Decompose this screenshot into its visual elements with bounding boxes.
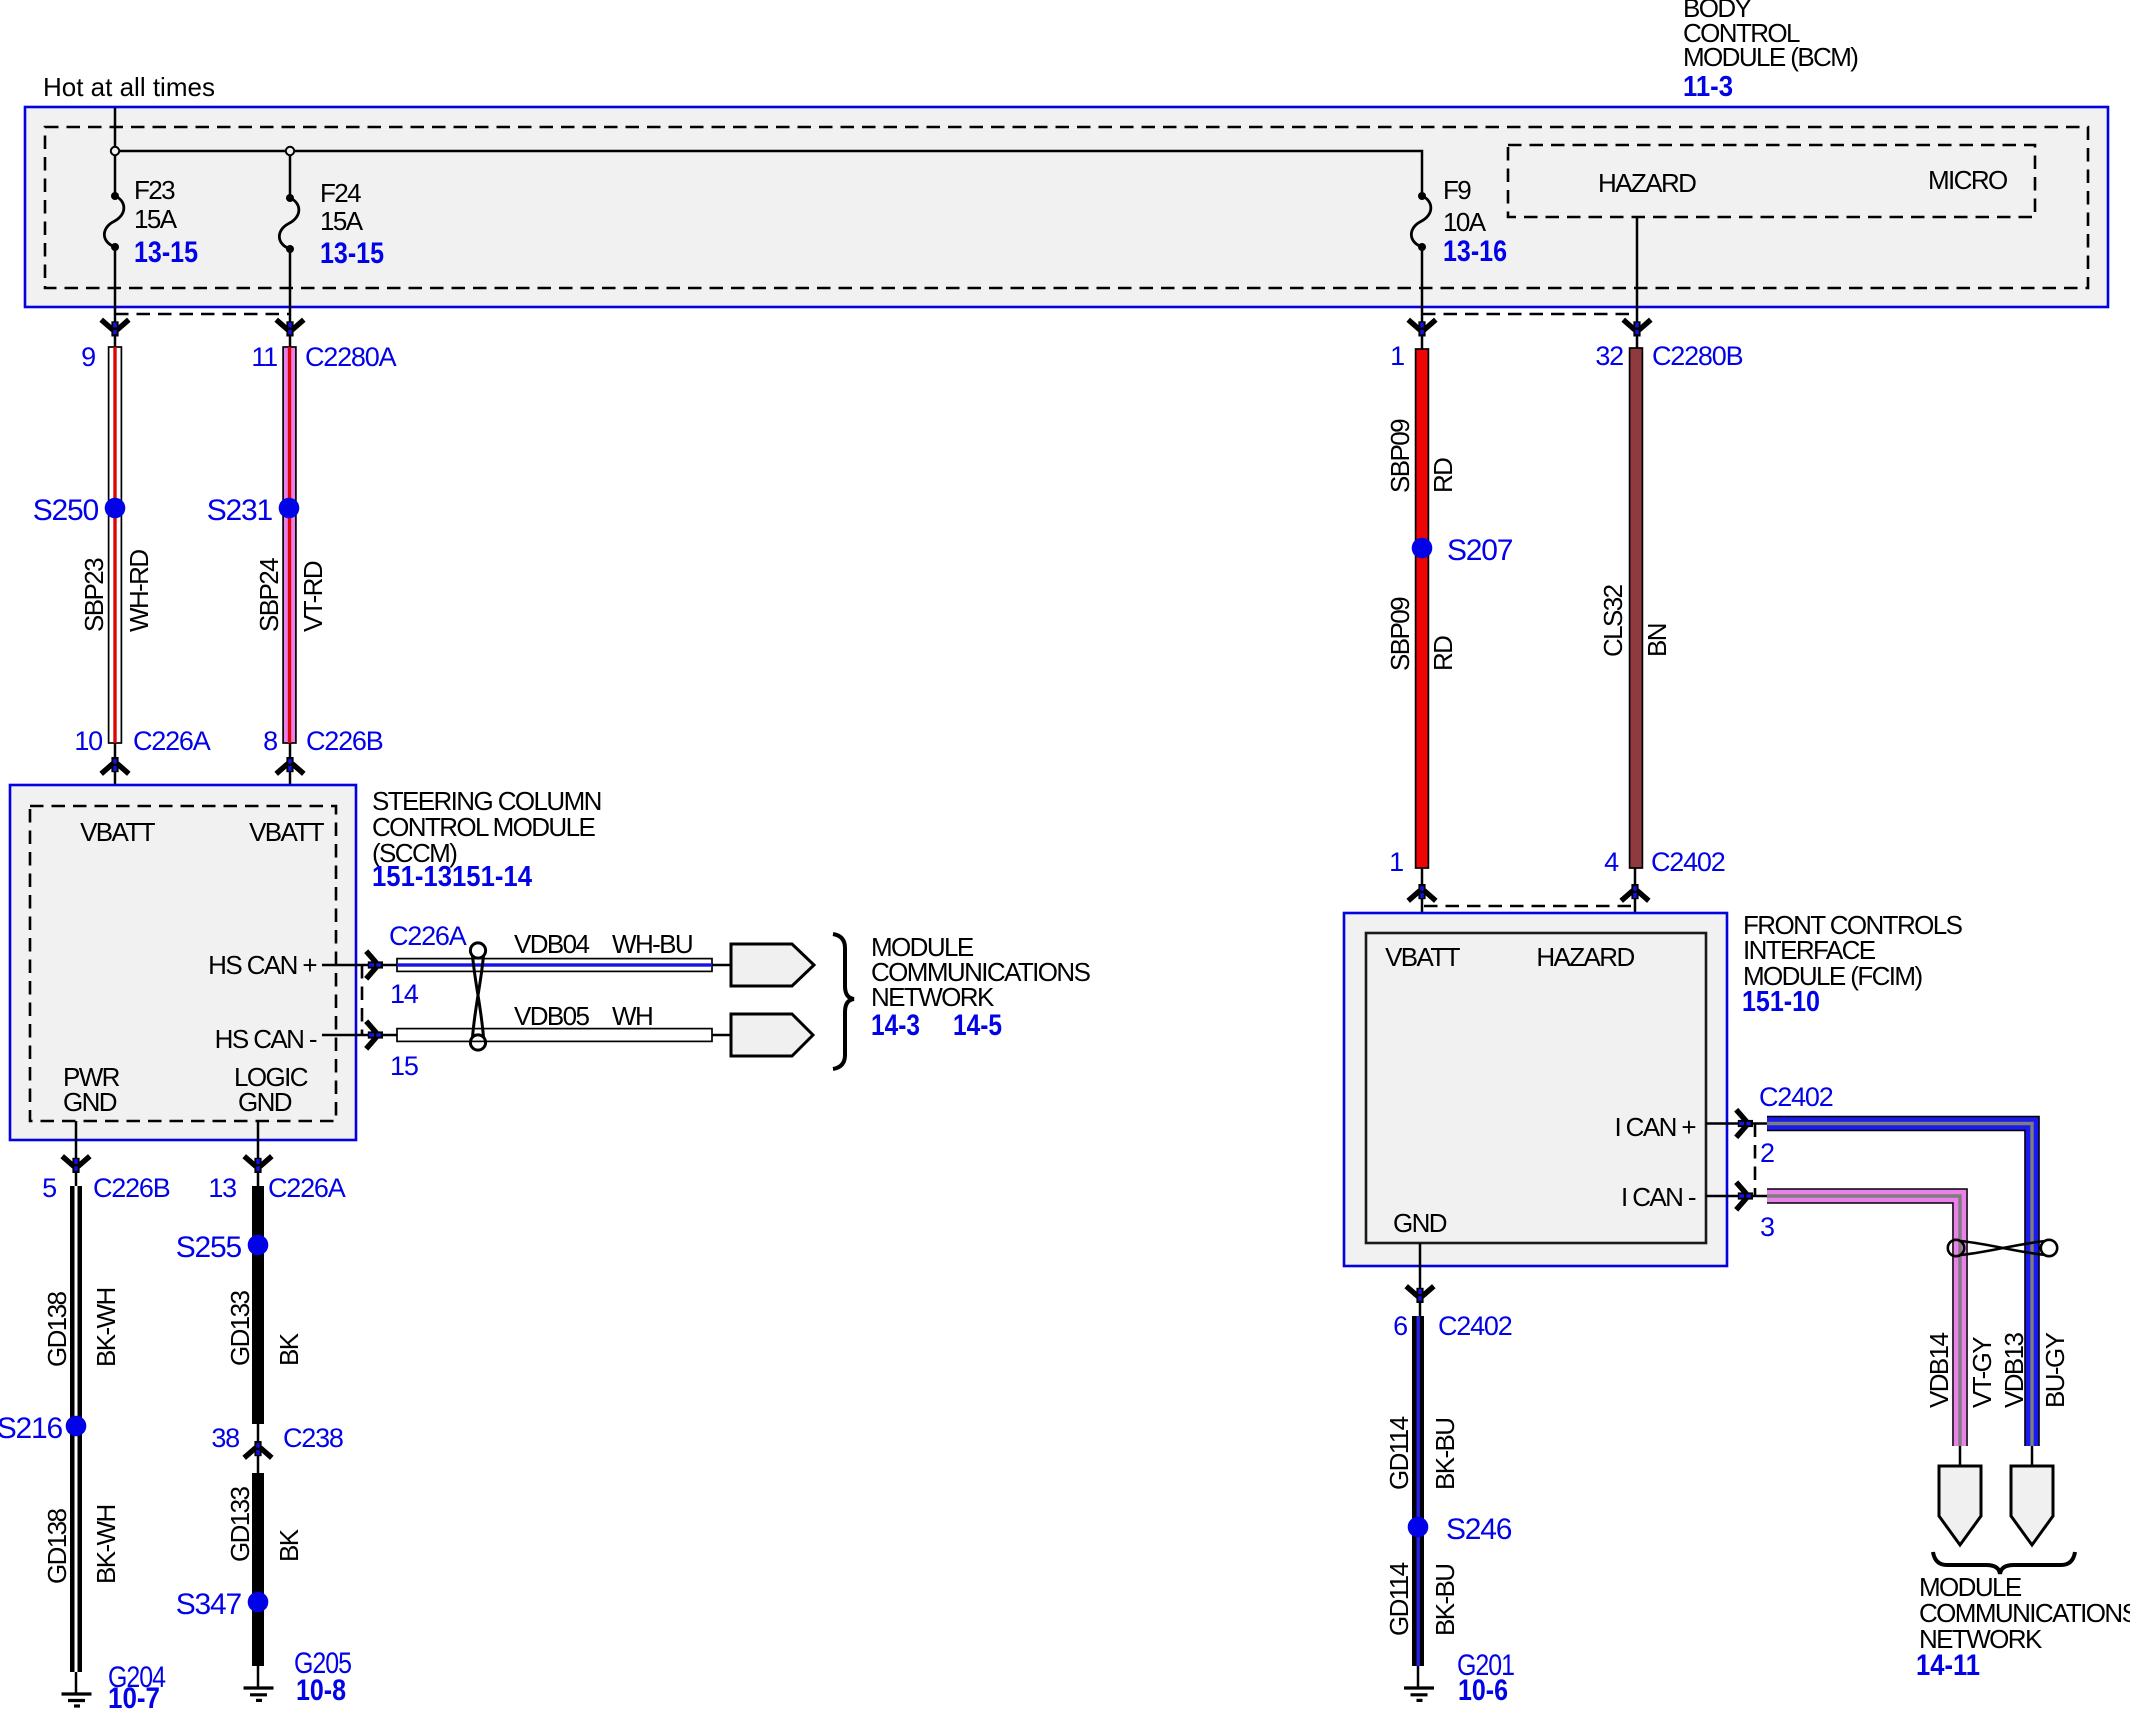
- wire VDB05 WH (HS CAN -): [397, 1029, 712, 1042]
- svg-text:SBP24: SBP24: [254, 558, 284, 632]
- wire: HS CAN + stub out of SCCM: [322, 964, 397, 967]
- wire VDB13 BU-GY (I CAN +): [1767, 1124, 2032, 1447]
- splice S231: [279, 498, 300, 519]
- module U2: SCCM inner dashed boundary: [30, 806, 336, 1121]
- ground G204 label: [108, 1661, 165, 1709]
- connector C2280A pin 11 arrow: [276, 320, 304, 337]
- wire: HS CAN - stub out of SCCM: [322, 1034, 397, 1037]
- wire: F24 tap drop: [289, 155, 292, 198]
- svg-text:C2280B: C2280B: [1652, 341, 1743, 371]
- connector C2280B pin 32 arrow: [1623, 320, 1651, 337]
- svg-text:RD: RD: [1428, 636, 1458, 671]
- wire: FCIM GND stub down: [1419, 1243, 1422, 1316]
- splice S246: [1408, 1517, 1429, 1538]
- module U3 label: FRONT CONTROLS INTERFACE MODULE (FCIM) 151-10: [1742, 910, 1963, 1018]
- connector C2402 dashed link above FCIM: [1424, 905, 1635, 908]
- svg-text:NETWORK: NETWORK: [871, 982, 995, 1012]
- wire: G205 ground lead: [257, 1666, 260, 1688]
- svg-text:I CAN -: I CAN -: [1621, 1182, 1696, 1212]
- wire GD133 BK (LOGIC GND to C238), upper segment: [252, 1186, 264, 1424]
- wire VDB14 VT-GY (I CAN -): [1767, 1196, 1960, 1446]
- junction: bus tap at F24: [286, 147, 294, 155]
- connector label row: C2402 top: [1389, 847, 1725, 877]
- wire: brown wire into FCIM HAZARD: [1634, 868, 1637, 933]
- svg-text:C226A: C226A: [133, 726, 211, 756]
- connector label row: C2402 bottom: [1393, 1311, 1512, 1341]
- connector C2280B pin 1 arrow: [1408, 320, 1436, 337]
- connector label row: C2280A pins: [81, 342, 396, 372]
- svg-text:S207: S207: [1447, 534, 1513, 567]
- svg-text:RD: RD: [1428, 458, 1458, 493]
- svg-text:BK-BU: BK-BU: [1430, 1419, 1460, 1490]
- svg-text:GD138: GD138: [42, 1508, 72, 1584]
- connector C2402 pin3 arrow: [1736, 1182, 1753, 1210]
- pin label: LOGIC GND: [234, 1062, 308, 1117]
- svg-text:8: 8: [263, 726, 277, 756]
- svg-text:6: 6: [1393, 1311, 1407, 1341]
- svg-text:151-13151-14: 151-13151-14: [372, 861, 532, 893]
- svg-text:GD138: GD138: [42, 1291, 72, 1367]
- svg-text:9: 9: [81, 342, 95, 372]
- wire GD114 BK-BU (FCIM GND to G201): [1412, 1316, 1424, 1666]
- svg-text:GND: GND: [238, 1087, 292, 1117]
- connector C2402 pin2 arrow: [1736, 1110, 1753, 1138]
- wire: C226A pin10 into SCCM VBATT: [114, 743, 117, 806]
- wire: C226B pin8 into SCCM VBATT: [289, 743, 292, 806]
- svg-text:F24: F24: [320, 178, 361, 208]
- connector C2402 pin6 arrow: [1406, 1286, 1434, 1303]
- ground G201 label: [1457, 1649, 1514, 1707]
- svg-text:GD114: GD114: [1384, 1416, 1414, 1490]
- svg-text:MODULE (BCM): MODULE (BCM): [1683, 42, 1858, 72]
- svg-text:11: 11: [251, 342, 277, 372]
- svg-text:14-3: 14-3: [871, 1009, 920, 1042]
- svg-text:14-11: 14-11: [1916, 1649, 1980, 1682]
- svg-text:3: 3: [1760, 1212, 1774, 1242]
- svg-text:BK-WH: BK-WH: [91, 1288, 121, 1367]
- connector label row: C226 upper: [74, 726, 382, 756]
- svg-text:F23: F23: [134, 175, 175, 205]
- svg-text:15: 15: [390, 1051, 418, 1081]
- svg-text:4: 4: [1604, 847, 1619, 877]
- wire GD133 BK (C238 to G205), lower segment: [252, 1473, 264, 1666]
- terminator: I CAN - network stub: [1939, 1466, 1981, 1545]
- svg-text:Hot at all times: Hot at all times: [43, 72, 215, 102]
- connector C226A pin14 arrow: [366, 951, 383, 979]
- connector C2280A pin 9 arrow: [101, 320, 129, 337]
- connector C226B pin5 arrow: [62, 1156, 90, 1173]
- svg-text:BK: BK: [274, 1332, 304, 1366]
- connector C226A pin10 arrow: [101, 757, 129, 774]
- wire: F23 fuse output to connector C2280A pin 9: [114, 247, 117, 348]
- svg-text:HS CAN +: HS CAN +: [208, 950, 316, 980]
- fuse F24 value label: [320, 178, 384, 270]
- wire: I CAN - stub out of FCIM: [1706, 1195, 1767, 1198]
- svg-text:BK-BU: BK-BU: [1430, 1565, 1460, 1636]
- twisted pair symbol (I CAN): [1948, 1240, 2057, 1256]
- svg-text:VDB14: VDB14: [1924, 1332, 1954, 1408]
- splice S255: [248, 1235, 269, 1256]
- connector C2402 ICAN dashed link: [1754, 1124, 1757, 1197]
- svg-text:BU-GY: BU-GY: [2040, 1332, 2070, 1408]
- svg-text:GND: GND: [1393, 1208, 1447, 1238]
- connector label row: C2280B pins: [1390, 341, 1742, 371]
- svg-text:S250: S250: [33, 494, 99, 527]
- brace: module communications network group (bottom): [1933, 1552, 2075, 1574]
- fuse F9 value label: [1443, 175, 1507, 268]
- svg-text:10-8: 10-8: [296, 1674, 346, 1707]
- connector C226A pin13 arrow: [244, 1156, 272, 1173]
- connector C226A pin15 arrow: [366, 1021, 383, 1049]
- svg-text:C2402: C2402: [1759, 1082, 1833, 1112]
- svg-text:14-5: 14-5: [953, 1009, 1002, 1042]
- ground G205 label: [294, 1647, 351, 1707]
- terminator: I CAN + network stub: [2011, 1466, 2053, 1545]
- svg-text:HAZARD: HAZARD: [1598, 168, 1696, 198]
- svg-text:VBATT: VBATT: [249, 817, 325, 847]
- wire SBP23 WH-RD (circuit from C2280A-9 to C226A-10): [109, 347, 122, 743]
- wire: internal bus from F23 tap to F9 drop: [115, 151, 1422, 196]
- svg-text:S231: S231: [207, 494, 273, 527]
- module U1 label: BODY CONTROL MODULE (BCM) 11-3: [1683, 0, 1858, 103]
- terminator: HS CAN - network stub: [731, 1014, 813, 1056]
- svg-text:BK-WH: BK-WH: [91, 1505, 121, 1584]
- svg-text:VT-RD: VT-RD: [298, 561, 328, 632]
- svg-text:C2402: C2402: [1651, 847, 1725, 877]
- wire SBP09 RD (C2280B-1 to C2402-1): [1416, 349, 1429, 868]
- wire SBP24 VT-RD (circuit from C2280A-11 to C226B-8): [283, 347, 296, 743]
- svg-text:1: 1: [1389, 847, 1403, 877]
- svg-text:C226A: C226A: [268, 1173, 346, 1203]
- svg-text:1: 1: [1390, 341, 1404, 371]
- wire VDB04 WH-BU (HS CAN +): [397, 959, 712, 972]
- wire: through C238 connector: [257, 1424, 260, 1473]
- svg-text:HS CAN -: HS CAN -: [215, 1024, 317, 1054]
- svg-text:C226A: C226A: [389, 921, 467, 951]
- svg-text:15A: 15A: [134, 204, 178, 234]
- module U1: Body Control Module (BCM) outer box: [25, 107, 2108, 307]
- wire: HS CAN + lead to network terminator: [712, 964, 733, 967]
- svg-text:5: 5: [42, 1173, 56, 1203]
- wire: G201 ground lead: [1417, 1666, 1420, 1688]
- connector C2402 pin1 arrow: [1408, 884, 1436, 901]
- svg-text:WH-RD: WH-RD: [124, 550, 154, 632]
- svg-text:SBP23: SBP23: [79, 558, 109, 632]
- svg-text:C238: C238: [283, 1423, 343, 1453]
- svg-text:S216: S216: [0, 1412, 63, 1445]
- svg-text:VDB05: VDB05: [514, 1001, 590, 1031]
- module U2: Steering Column Control Module (SCCM) outer box: [10, 785, 356, 1140]
- svg-text:GD133: GD133: [225, 1290, 255, 1366]
- wire: battery feed stub into BCM at x=115: [114, 108, 117, 196]
- fuse F9: [1411, 192, 1431, 251]
- splice S347: [248, 1592, 269, 1613]
- splice S216: [66, 1416, 87, 1437]
- svg-text:S246: S246: [1446, 1513, 1512, 1546]
- svg-text:10A: 10A: [1443, 207, 1487, 237]
- connector C2402 pin4 arrow: [1621, 884, 1649, 901]
- module U3: Front Controls Interface Module (FCIM) outer box: [1344, 913, 1727, 1266]
- svg-text:13-16: 13-16: [1443, 235, 1507, 268]
- svg-text:MICRO: MICRO: [1928, 165, 2007, 195]
- splice S250: [105, 498, 126, 519]
- svg-text:C2402: C2402: [1438, 1311, 1512, 1341]
- svg-text:VDB04: VDB04: [514, 929, 590, 959]
- svg-text:11-3: 11-3: [1683, 71, 1733, 103]
- svg-text:I CAN +: I CAN +: [1614, 1112, 1695, 1142]
- splice S207: [1412, 538, 1433, 559]
- svg-text:32: 32: [1595, 341, 1623, 371]
- wire: F24 fuse output to connector C2280A pin 11: [289, 249, 292, 348]
- connector C226B pin8 arrow: [276, 757, 304, 774]
- svg-text:CLS32: CLS32: [1598, 584, 1628, 657]
- svg-text:GD133: GD133: [225, 1486, 255, 1562]
- svg-text:15A: 15A: [320, 206, 364, 236]
- svg-text:151-10: 151-10: [1742, 986, 1820, 1018]
- svg-text:10-7: 10-7: [108, 1682, 160, 1709]
- svg-text:VDB13: VDB13: [1999, 1332, 2029, 1408]
- wire: SCCM PWR GND stub down: [75, 1121, 78, 1186]
- wire CLS32 BN (C2280B-32 to C2402-4): [1630, 348, 1643, 868]
- svg-text:SBP09: SBP09: [1385, 597, 1415, 671]
- wire: F9 fuse output to connector C2280B pin 1: [1421, 247, 1424, 349]
- wire: SCCM LOGIC GND stub down: [257, 1121, 260, 1186]
- connector C226A CAN dashed link: [361, 965, 364, 1035]
- svg-text:VBATT: VBATT: [80, 817, 156, 847]
- connector C2280B: dashed link under BCM: [1422, 313, 1637, 316]
- net label: MODULE COMMUNICATIONS NETWORK 14-3 14-5: [871, 932, 1091, 1042]
- twisted pair symbol (HS CAN): [470, 943, 485, 1050]
- svg-text:13-15: 13-15: [134, 236, 198, 269]
- svg-text:GND: GND: [63, 1087, 117, 1117]
- svg-text:F9: F9: [1443, 175, 1471, 205]
- svg-text:GD114: GD114: [1384, 1562, 1414, 1636]
- svg-text:C226B: C226B: [306, 726, 383, 756]
- wire: red wire into FCIM VBATT: [1421, 868, 1424, 933]
- wire: I CAN + stub out of FCIM: [1706, 1122, 1767, 1125]
- fuse F23: [104, 192, 124, 251]
- svg-text:C2280A: C2280A: [305, 342, 397, 372]
- svg-text:WH: WH: [612, 1001, 652, 1031]
- module U2 label: STEERING COLUMN CONTROL MODULE (SCCM): [372, 786, 601, 893]
- svg-text:13: 13: [208, 1173, 236, 1203]
- junction: bus tap at F23: [111, 147, 119, 155]
- svg-text:S255: S255: [176, 1231, 242, 1264]
- net label: MODULE COMMUNICATIONS NETWORK 14-11: [1916, 1572, 2130, 1682]
- svg-text:BN: BN: [1642, 624, 1672, 657]
- svg-text:2: 2: [1760, 1138, 1774, 1168]
- svg-text:HAZARD: HAZARD: [1536, 942, 1634, 972]
- ground G205: [244, 1688, 274, 1700]
- connector label row: C238: [211, 1423, 343, 1453]
- module U3: FCIM inner boundary: [1366, 933, 1706, 1243]
- block: HAZARD / MICRO dashed sub-module inside BCM: [1508, 145, 2035, 217]
- terminator: HS CAN + network stub: [731, 944, 814, 986]
- fuse F23 value label: [134, 175, 198, 269]
- svg-text:S347: S347: [176, 1588, 242, 1621]
- brace: module communications network group: [833, 934, 854, 1069]
- svg-text:13-15: 13-15: [320, 237, 384, 270]
- connector label row: C226 lower: [42, 1173, 346, 1203]
- ground G204: [62, 1694, 92, 1706]
- pin label: PWR GND: [63, 1062, 120, 1117]
- connector C2280A: dashed link under BCM: [115, 313, 290, 316]
- ground G201: [1404, 1688, 1434, 1700]
- svg-text:38: 38: [211, 1423, 239, 1453]
- svg-text:C226B: C226B: [93, 1173, 170, 1203]
- wire GD138 BK-WH (PWR GND to G204): [70, 1186, 82, 1672]
- svg-text:WH-BU: WH-BU: [612, 929, 692, 959]
- svg-text:VBATT: VBATT: [1385, 942, 1461, 972]
- svg-text:10: 10: [74, 726, 102, 756]
- connector C238 pin38 arrow: [244, 1441, 272, 1458]
- wire: HS CAN - lead to network terminator: [712, 1034, 733, 1037]
- wire: I CAN + lead to network terminator: [2031, 1446, 2034, 1470]
- svg-text:14: 14: [390, 979, 419, 1009]
- svg-text:10-6: 10-6: [1458, 1674, 1508, 1707]
- fuse F24: [279, 194, 299, 253]
- wire: G204 ground lead: [75, 1672, 78, 1694]
- svg-text:BK: BK: [274, 1528, 304, 1562]
- wire: HAZARD output to connector C2280B pin 32: [1636, 217, 1639, 348]
- svg-text:SBP09: SBP09: [1385, 419, 1415, 493]
- module U1: BCM inner dashed boundary: [45, 127, 2088, 288]
- wire: I CAN - lead to network terminator: [1959, 1446, 1962, 1470]
- svg-text:VT-GY: VT-GY: [1967, 1337, 1997, 1408]
